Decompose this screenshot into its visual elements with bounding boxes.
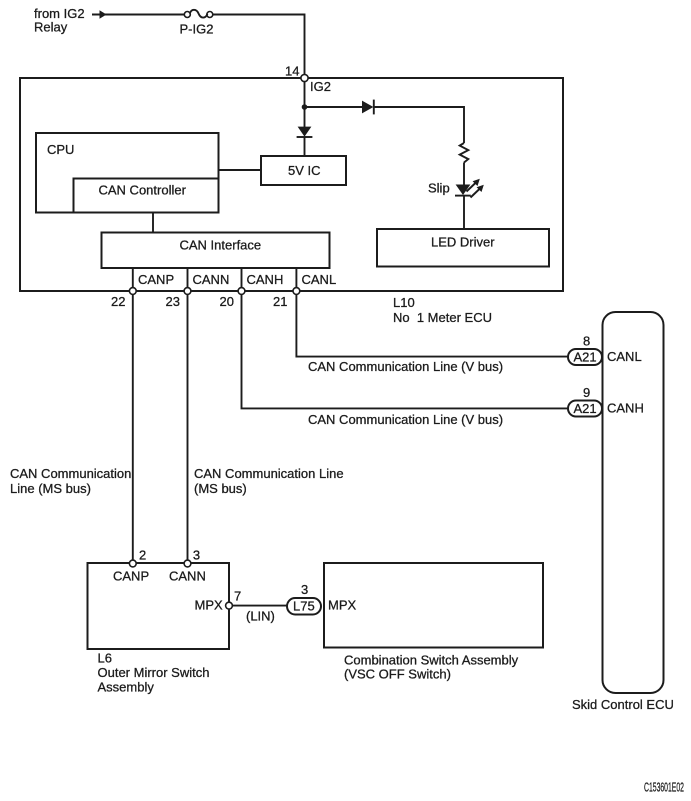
- wire: fuse to ECU pin 14: [213, 15, 305, 76]
- pin 20: [238, 288, 245, 295]
- svg-text:MPX: MPX: [328, 598, 357, 613]
- svg-text:MPX: MPX: [195, 598, 224, 613]
- svg-text:Outer Mirror Switch: Outer Mirror Switch: [98, 665, 210, 680]
- wire: pin 14 to junction: [304, 82, 306, 107]
- svg-text:3: 3: [193, 548, 200, 563]
- junction node: [302, 104, 308, 110]
- diode D2 (branch to LED driver circuit): [362, 100, 374, 115]
- wire: CANL stub pin 21: [295, 268, 297, 288]
- svg-text:C153601E02: C153601E02: [644, 780, 684, 795]
- wire: CANP stub pin 22: [132, 268, 134, 288]
- node: from IG2 Relay source label: [34, 6, 85, 35]
- Outer Mirror Switch Assembly box: [88, 563, 230, 649]
- svg-text:(VSC OFF Switch): (VSC OFF Switch): [344, 667, 451, 682]
- svg-text:CANH: CANH: [607, 401, 644, 416]
- connector L75 pin 3: [287, 598, 321, 615]
- Skid Control ECU box: [603, 312, 664, 693]
- svg-text:CANP: CANP: [113, 569, 149, 584]
- svg-text:L10: L10: [393, 295, 415, 310]
- wire: CANN stub pin 23: [187, 268, 189, 288]
- svg-text:CANN: CANN: [169, 569, 206, 584]
- svg-text:P-IG2: P-IG2: [180, 22, 214, 37]
- svg-text:L75: L75: [293, 599, 315, 614]
- svg-text:8: 8: [583, 334, 590, 349]
- svg-text:CAN Communication: CAN Communication: [10, 466, 131, 481]
- diode D1 (feeds 5V IC): [297, 127, 313, 137]
- label: CAN Communication Line (MS bus) left: [10, 466, 131, 496]
- svg-text:Slip: Slip: [428, 181, 450, 196]
- svg-text:CAN Communication Line (V bus): CAN Communication Line (V bus): [308, 359, 503, 374]
- CPU box: [36, 133, 219, 213]
- wire: IG2 relay feed with direction arrow: [92, 10, 185, 18]
- svg-text:No 1 Meter ECU: No 1 Meter ECU: [393, 310, 492, 325]
- svg-text:CAN Interface: CAN Interface: [180, 238, 262, 253]
- svg-text:Relay: Relay: [34, 20, 68, 35]
- svg-text:CANH: CANH: [247, 272, 284, 287]
- Combination Switch Assembly box: [324, 563, 543, 648]
- svg-text:CPU: CPU: [47, 142, 74, 157]
- svg-text:7: 7: [234, 589, 241, 604]
- wire: CANN MS bus vertical: [187, 294, 189, 560]
- svg-text:23: 23: [166, 294, 180, 309]
- pin 2: [129, 560, 136, 567]
- svg-text:(LIN): (LIN): [246, 609, 275, 624]
- pin 7: [226, 602, 233, 609]
- svg-text:CANP: CANP: [138, 272, 174, 287]
- svg-text:CANL: CANL: [607, 349, 642, 364]
- svg-text:20: 20: [220, 294, 234, 309]
- CAN Controller box: [74, 179, 219, 213]
- label: Combination Switch Assembly (VSC OFF Switch): [344, 653, 519, 682]
- resistor R (slip indicator series): [460, 143, 469, 163]
- pin 22: [129, 288, 136, 295]
- wire: diode D1 cathode to 5V IC: [304, 137, 306, 156]
- LED slip indicator: [455, 179, 484, 198]
- svg-text:(MS bus): (MS bus): [194, 481, 247, 496]
- svg-text:CAN Controller: CAN Controller: [99, 183, 187, 198]
- 5V IC box: [261, 156, 346, 185]
- svg-text:22: 22: [111, 294, 125, 309]
- pin 23: [184, 288, 191, 295]
- svg-text:Line (MS bus): Line (MS bus): [10, 481, 91, 496]
- wire: CANH V bus: [242, 294, 569, 408]
- svg-text:9: 9: [583, 385, 590, 400]
- pin 21: [293, 288, 300, 295]
- svg-text:CANN: CANN: [193, 272, 230, 287]
- wire: CANH stub pin 20: [241, 268, 243, 288]
- LED Driver box: [377, 229, 549, 267]
- wire: CANP MS bus vertical: [132, 294, 134, 560]
- svg-text:L6: L6: [98, 651, 112, 666]
- connector A21 pin 9: [568, 401, 602, 417]
- wire: resistor to LED: [463, 163, 465, 185]
- svg-text:CANL: CANL: [302, 272, 337, 287]
- ECU box L10 No.1 Meter ECU: [20, 78, 563, 291]
- svg-text:Combination Switch Assembly: Combination Switch Assembly: [344, 653, 519, 668]
- wire: junction down to diode D1: [304, 107, 306, 127]
- svg-text:Assembly: Assembly: [98, 680, 155, 695]
- svg-text:21: 21: [273, 294, 287, 309]
- wire: LED cathode to LED Driver: [463, 196, 465, 229]
- svg-text:A21: A21: [574, 401, 597, 416]
- svg-text:2: 2: [139, 548, 146, 563]
- label: L10 No.1 Meter ECU: [393, 295, 492, 325]
- svg-text:3: 3: [301, 582, 308, 597]
- fuse P-IG2: [184, 10, 213, 18]
- svg-text:A21: A21: [574, 350, 597, 365]
- svg-text:LED Driver: LED Driver: [431, 235, 495, 250]
- wire: CAN Controller to CAN Interface: [152, 213, 154, 233]
- svg-text:IG2: IG2: [310, 79, 331, 94]
- svg-text:CAN Communication Line (V bus): CAN Communication Line (V bus): [308, 412, 503, 427]
- CAN Interface box: [102, 233, 330, 269]
- wire: LIN line pin 7 to L75: [229, 605, 287, 607]
- wire: CANL V bus: [296, 294, 568, 357]
- connector A21 pin 8: [568, 349, 602, 365]
- wire: junction branch to LED circuit: [305, 106, 363, 108]
- svg-text:CAN Communication Line: CAN Communication Line: [194, 466, 344, 481]
- pin 14: [301, 74, 308, 81]
- pin 3: [184, 560, 191, 567]
- svg-text:14: 14: [285, 64, 299, 79]
- svg-text:5V IC: 5V IC: [288, 163, 321, 178]
- label: CAN Communication Line (MS bus) middle: [194, 466, 344, 496]
- wire: CPU to 5V IC: [219, 169, 262, 171]
- wire: diode D2 cathode to resistor: [374, 107, 464, 143]
- label: L6 Outer Mirror Switch Assembly: [98, 651, 210, 695]
- svg-text:Skid Control ECU: Skid Control ECU: [572, 697, 674, 712]
